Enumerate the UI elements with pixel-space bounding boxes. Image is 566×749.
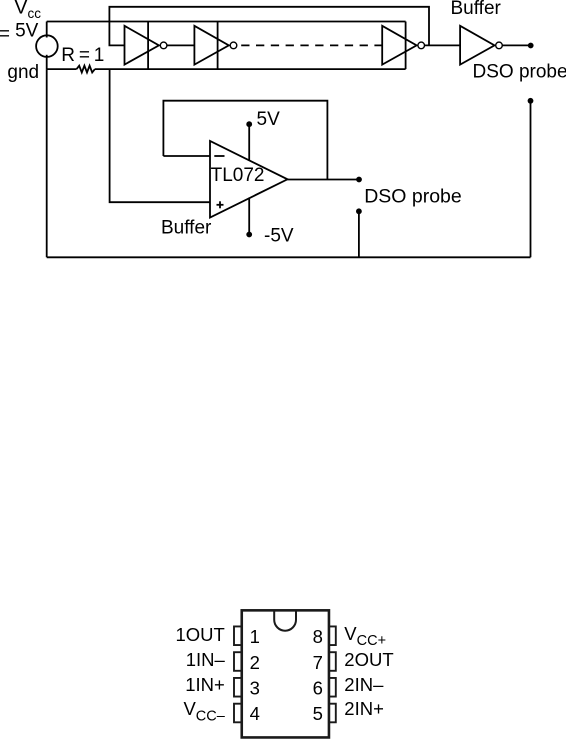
pin 5 <box>329 704 336 723</box>
wire source bottom <box>46 55 48 69</box>
opamp feedback loop <box>163 101 327 180</box>
gate divider 2 <box>217 22 219 70</box>
probe tip dot top <box>528 43 534 49</box>
wire Vcc rail <box>47 21 406 23</box>
wire -5V supply stub <box>248 198 250 235</box>
wire left vertical <box>46 69 48 257</box>
plus input symbol <box>217 204 224 206</box>
minus input symbol <box>214 155 224 157</box>
op-amp U5 <box>210 141 288 218</box>
svg-text:5V: 5V <box>257 109 281 130</box>
svg-text:Buffer: Buffer <box>161 218 212 239</box>
pin 8 <box>329 626 336 645</box>
dashed continuation wire <box>241 44 382 46</box>
svg-text:5V: 5V <box>15 21 39 42</box>
svg-text:Vcc: Vcc <box>14 0 41 21</box>
inverter U4 buffer <box>460 26 494 65</box>
feedback wire <box>109 7 429 46</box>
svg-text:VCC–: VCC– <box>183 698 225 724</box>
wire probe gnd opamp <box>358 214 360 257</box>
bubble U3 <box>418 42 425 49</box>
svg-text:2IN+: 2IN+ <box>344 698 384 719</box>
svg-text:8: 8 <box>313 626 323 647</box>
svg-text:R = 1: R = 1 <box>61 45 104 66</box>
wire opamp - input <box>163 155 210 157</box>
wire probe gnd right <box>530 103 532 257</box>
pin 3 <box>234 678 242 697</box>
IC box right edge <box>405 22 407 70</box>
svg-text:4: 4 <box>250 703 260 724</box>
wire gnd rail left <box>47 68 77 70</box>
probe tip dot opamp <box>356 177 362 183</box>
svg-text:5: 5 <box>313 703 323 724</box>
svg-text:TL072: TL072 <box>211 165 265 186</box>
svg-text:=: = <box>0 24 10 45</box>
voltage source V1 <box>36 35 58 57</box>
wire gnd rail right <box>95 68 406 70</box>
inverter U2 <box>194 26 228 65</box>
wire opamp output <box>288 179 360 181</box>
wire U1 to U2 <box>167 44 195 46</box>
inverter U3 <box>382 26 416 65</box>
resistor R1 <box>77 66 95 73</box>
svg-text:DSO probe: DSO probe <box>473 61 566 82</box>
wire bottom gnd rail <box>47 256 531 258</box>
wire U3 output <box>424 44 460 46</box>
IC notch <box>274 610 296 630</box>
pin 2 <box>234 652 242 671</box>
svg-text:DSO probe: DSO probe <box>364 186 462 208</box>
svg-text:1OUT: 1OUT <box>175 624 224 645</box>
bubble U2 <box>230 42 237 49</box>
bubble U1 <box>160 42 167 49</box>
pin 7 <box>329 652 336 671</box>
pin 4 <box>234 704 242 723</box>
probe gnd dot right <box>528 98 534 104</box>
pin 6 <box>329 678 336 697</box>
svg-text:-5V: -5V <box>264 226 294 247</box>
svg-text:2: 2 <box>250 652 260 673</box>
gate divider 1 <box>147 22 149 70</box>
svg-text:2IN–: 2IN– <box>344 674 384 695</box>
svg-text:1IN+: 1IN+ <box>185 674 225 695</box>
svg-text:Buffer: Buffer <box>451 0 502 19</box>
svg-text:7: 7 <box>313 652 323 673</box>
wire source top <box>46 22 48 38</box>
svg-text:VCC+: VCC+ <box>344 623 386 649</box>
IC body <box>242 610 329 737</box>
bubble U4 <box>496 42 503 49</box>
svg-text:6: 6 <box>313 678 323 699</box>
svg-text:1IN–: 1IN– <box>186 649 226 670</box>
svg-text:2OUT: 2OUT <box>344 649 393 670</box>
inverter U1 <box>125 26 159 65</box>
5V supply dot <box>246 121 252 127</box>
wire 5V supply stub <box>248 124 250 161</box>
svg-text:1: 1 <box>250 626 260 647</box>
svg-text:gnd: gnd <box>7 62 39 83</box>
svg-text:3: 3 <box>250 678 260 699</box>
wire opamp + input <box>110 69 210 202</box>
-5V supply dot <box>246 232 252 238</box>
pin 1 <box>234 626 242 645</box>
wire U4 output <box>502 44 531 46</box>
probe gnd dot opamp <box>356 208 362 214</box>
